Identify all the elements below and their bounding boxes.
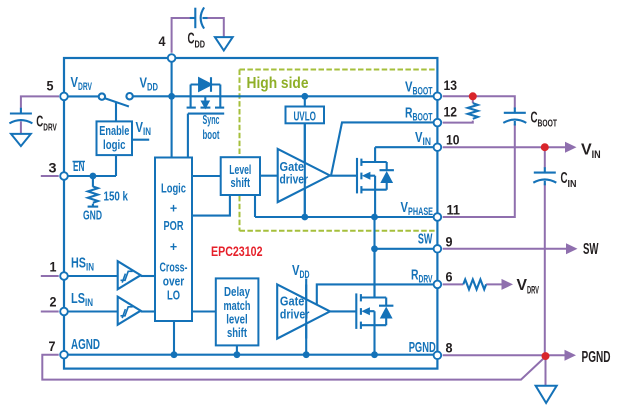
wire VDD rail switch to pin13 [133, 95, 438, 97]
switch S1 enable switch [99, 93, 133, 121]
svg-text:LO: LO [167, 289, 180, 303]
wire pin3 EN stub [41, 175, 59, 177]
wire VDD low driver bias to AGND [305, 279, 307, 355]
svg-text:logic: logic [103, 138, 126, 152]
svg-text:AGND: AGND [71, 336, 100, 353]
pin 5 [60, 93, 68, 101]
IC package outline EPC23102 [64, 58, 437, 369]
wire logic to delay match [192, 310, 216, 312]
capacitor CIN [533, 167, 556, 185]
wire HS driver to RBOOT pin12 [331, 122, 437, 175]
ground below CDD [215, 37, 233, 50]
wire HSIN pin1 to buffer [64, 275, 118, 277]
svg-text:Delay: Delay [224, 285, 250, 299]
svg-text:3: 3 [49, 160, 57, 176]
wire VDD bias through LS driver [305, 285, 307, 339]
svg-text:shift: shift [231, 176, 251, 190]
resistor RBOOT external [468, 103, 478, 119]
svg-text:PGND: PGND [582, 349, 611, 366]
svg-text:Sync: Sync [203, 113, 220, 127]
wire VIN output pin10 [443, 146, 566, 148]
arrow VDRV [502, 279, 514, 290]
svg-text:shift: shift [227, 326, 248, 340]
capacitor CBOOT [503, 108, 526, 126]
svg-text:7: 7 [49, 338, 56, 354]
wire PGND dot to ground [545, 356, 547, 386]
wire RDRV pin6 to low driver [317, 284, 438, 304]
high side dashed region [240, 70, 438, 231]
enable logic block [97, 121, 133, 155]
ground below CDRV [11, 134, 31, 146]
pin 9 [434, 245, 442, 253]
svg-text:+: + [170, 240, 177, 254]
svg-text:match: match [224, 299, 251, 313]
wire SW output pin9 [443, 248, 567, 250]
pin 1 [60, 272, 68, 280]
wire VPHASE rail to pin11 [255, 216, 437, 218]
wire CIN branch [544, 147, 546, 356]
logic POR crossover block [155, 158, 192, 322]
junction dots red [469, 92, 550, 360]
sync boot FET with diode [187, 77, 225, 113]
wire LS buffer to logic [141, 310, 155, 312]
svg-text:SW: SW [583, 241, 599, 258]
svg-text:driver: driver [280, 307, 310, 321]
wire logic to level shift [192, 175, 221, 177]
transistor Q2 low side FET [356, 249, 393, 355]
svg-text:Level: Level [229, 163, 251, 177]
wire SW line to pin9 [375, 248, 438, 250]
svg-text:11: 11 [447, 202, 461, 218]
pin 4 [168, 54, 176, 62]
capacitor CDD [190, 7, 208, 28]
arrow PGND [565, 350, 577, 361]
arrow VIN [565, 142, 577, 153]
svg-text:5: 5 [47, 78, 54, 94]
wire level shift to VPHASE node [254, 195, 256, 217]
svg-text:2: 2 [50, 294, 57, 310]
svg-text:4: 4 [159, 33, 166, 49]
wire VIN line to pin10 [375, 146, 437, 148]
svg-text:Enable: Enable [99, 124, 129, 138]
svg-text:6: 6 [446, 269, 453, 285]
svg-text:+: + [170, 202, 177, 216]
wire AGND return pin7 [42, 355, 545, 380]
wire delay match bottom to AGND [236, 345, 238, 354]
svg-text:12: 12 [444, 104, 458, 120]
svg-text:EN: EN [73, 158, 85, 175]
wire CDD branch pin4 [172, 18, 191, 53]
pin 10 [434, 143, 442, 151]
wire VIN into enable logic [132, 139, 149, 141]
pin 7 [60, 351, 68, 359]
svg-text:SW: SW [418, 231, 433, 248]
svg-text:150 k: 150 k [104, 190, 129, 204]
wire RDRV output pin6 [443, 283, 502, 285]
resistor RDRV external [463, 279, 486, 289]
svg-text:Gate: Gate [280, 294, 305, 308]
wire pin4 VDD vertical to logic [171, 58, 173, 158]
svg-text:EPC23102: EPC23102 [211, 244, 263, 259]
svg-text:1: 1 [50, 259, 57, 275]
capacitor CDRV [9, 108, 32, 124]
svg-text:Cross-: Cross- [160, 261, 188, 275]
op-amp U-A high side gate driver [278, 149, 330, 202]
wire mid vertical VPHASE-SW-LSFET drain [373, 217, 375, 298]
transistor Q1 high side FET [357, 147, 394, 217]
pin 6 [434, 281, 442, 289]
pin 11 [434, 213, 442, 221]
UVLO block [286, 107, 325, 124]
wire level shift aux to logic [192, 195, 230, 216]
pin 13 [434, 92, 442, 100]
wire AGND rail pin7 to pin8 [64, 354, 437, 356]
svg-text:10: 10 [446, 132, 460, 148]
svg-text:level: level [226, 313, 248, 327]
op-amp U-B low side gate driver [277, 284, 330, 338]
resistor 150k [88, 176, 99, 207]
pin 8 [434, 352, 442, 360]
svg-text:UVLO: UVLO [293, 109, 316, 123]
svg-text:9: 9 [446, 234, 453, 250]
pin 2 [60, 308, 68, 316]
wire EN pin3 to enable logic [64, 155, 116, 176]
wire RBOOT branch [443, 96, 473, 122]
wire logic bottom to AGND [173, 321, 175, 355]
wire sync boot gate to logic [187, 114, 189, 158]
pin 12 [434, 119, 442, 127]
external purple wires [21, 18, 567, 386]
svg-text:boot: boot [203, 128, 221, 142]
wire VBOOT pin13 to CBOOT top [443, 96, 515, 108]
wire level shift to HS gate driver [260, 175, 278, 177]
svg-text:POR: POR [164, 219, 184, 233]
wire VDRV pin5 to switch [64, 95, 99, 97]
wire UVLO through HS driver [304, 123, 306, 217]
wire pin2 LSIN stub [41, 311, 59, 313]
svg-text:8: 8 [446, 340, 453, 356]
svg-text:Logic: Logic [161, 182, 186, 196]
svg-text:High side: High side [247, 75, 309, 92]
level shift block [221, 157, 260, 195]
svg-text:over: over [163, 275, 185, 289]
junction dots blue [90, 93, 378, 358]
wire UVLO to VPHASE [304, 123, 306, 217]
wire LS driver output to FET gate [330, 310, 356, 312]
buffer LS schmitt [118, 297, 141, 325]
wire CBOOT bottom to VPHASE pin11 [443, 124, 515, 217]
svg-text:GND: GND [83, 208, 102, 222]
wire LSIN pin2 to buffer [64, 310, 118, 312]
wire pin1 HSIN stub [41, 275, 59, 277]
pin 3 [60, 172, 68, 180]
wire PGND output pin8 [443, 354, 565, 356]
wire CDRV branch pin5 [21, 96, 59, 108]
ground PGND [536, 386, 557, 403]
wire HS buffer to logic [141, 275, 155, 277]
arrow SW [566, 243, 578, 254]
wire UVLO top branch [304, 96, 306, 106]
buffer HS schmitt [118, 261, 141, 289]
wire HS driver output to FET gate [330, 175, 357, 177]
svg-text:13: 13 [444, 77, 458, 93]
delay match level shift block [216, 278, 259, 345]
svg-text:PGND: PGND [409, 339, 436, 356]
